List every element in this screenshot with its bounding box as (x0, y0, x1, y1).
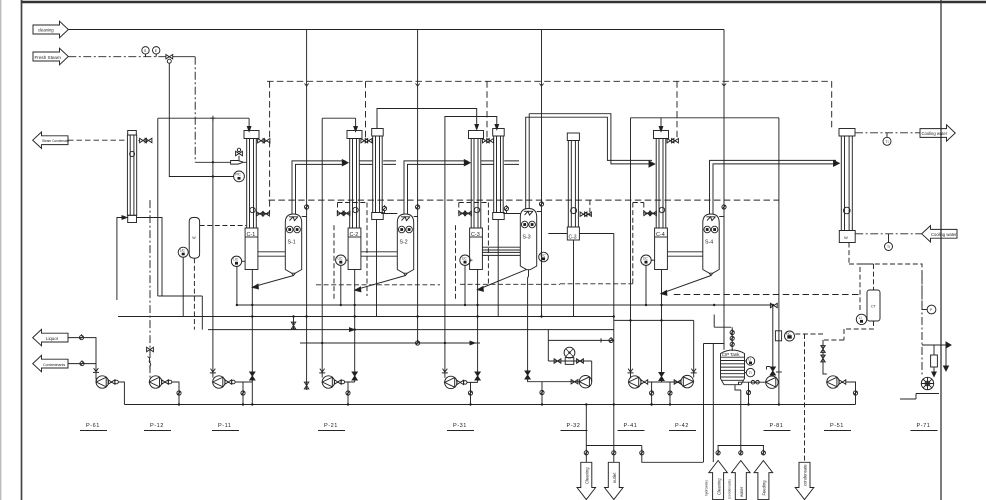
wire: vapor pipe S-2 to C-3 (404, 160, 470, 214)
pump P-51 (827, 376, 839, 388)
valve on contaminants line (80, 360, 84, 366)
svg-text:Feeding: Feeding (762, 480, 767, 496)
instrument PIC below C-1 steam inlet (234, 171, 245, 182)
wire: P-42 suction riser (693, 320, 695, 377)
arrowhead into C-2 drain (350, 328, 355, 332)
wire: chain-dash suction of P-12 (149, 200, 151, 377)
valve on P-31 discharge (457, 380, 467, 384)
wire: duct C-3 to S-3 (two bands) (482, 247, 520, 255)
preheater column E-2 (372, 129, 384, 220)
column CT (867, 290, 880, 321)
flag: Contaminants outlet arrow (left) (33, 355, 68, 371)
wire: vapor pipe C-2 to E-2 stub (360, 161, 373, 165)
flag: Cooling water outlet arrow (right) (920, 125, 955, 141)
wire: C-4 drain drop x=661.5 (661, 270, 663, 383)
svg-text:cleaning: cleaning (38, 28, 54, 33)
svg-text:W: W (192, 236, 196, 240)
frame outer edge shading (0, 0, 2, 500)
valve on P-32 suction (571, 380, 578, 384)
wire: steam condensate dashed line to E-1 (68, 139, 127, 141)
wire: dashed enclosure effect 2 (316, 203, 440, 301)
svg-text:Cooling water: Cooling water (931, 232, 957, 237)
wire: drop to C-4 cap x=661 (660, 118, 662, 129)
svg-text:P-32: P-32 (567, 423, 581, 429)
valve pair right of C-4 top (667, 139, 678, 143)
check valve above P-42 (691, 369, 697, 373)
column C-1 (244, 131, 259, 270)
svg-text:P-12: P-12 (150, 423, 164, 429)
wire: E-3 drain (497, 220, 499, 317)
svg-text:LIC: LIC (233, 258, 239, 262)
flag: Cleaning down arrow (577, 462, 596, 499)
wire: cleaning drop to CIP tank x=724 (723, 30, 725, 350)
pump P-31 (445, 376, 457, 388)
svg-text:S-4: S-4 (705, 240, 713, 246)
wire: header D left drop to P-41 (630, 118, 632, 378)
instrument PI on fresh steam (142, 47, 149, 57)
pump P-11 (213, 376, 225, 388)
wire: header A right drop to C-1 cap (248, 118, 250, 129)
wire: P-31 suction (444, 343, 446, 378)
instrument TI on cooling water in (885, 234, 893, 251)
flag: outlet down arrow (605, 462, 624, 499)
wire: header A left drop (157, 118, 159, 296)
wire: vapor pipe S-4 to condenser (710, 160, 840, 214)
arrowheads on P-71 branch (932, 342, 951, 377)
wire: transfer feed line y=343 (300, 342, 480, 344)
wire: vapor pipe C-3 to E-3 stub (481, 161, 493, 165)
valve on P-51 suction lower (821, 355, 825, 362)
pump P-12 (149, 376, 161, 388)
wire: dashed enclosure at P-51 (795, 334, 823, 462)
instrument LIC of C-4 (641, 255, 655, 305)
flag: Fresh Steam inlet arrow (33, 48, 68, 65)
flag: cleaning inlet arrow (33, 21, 68, 38)
wire: S-1 drain diagonal (253, 276, 294, 287)
svg-text:Cooling water: Cooling water (922, 131, 948, 136)
wire: dashed drop to C-2 x=365.5 (365, 81, 367, 140)
wire: secondary transfer line y=329.2 (208, 329, 614, 331)
flag: Feeding up arrow (754, 446, 773, 500)
wire: P-71 bottom piping (900, 394, 939, 400)
wire: E-1 bottom inlet with arrow (117, 218, 123, 301)
wire: E-2 drain (376, 220, 378, 317)
vent valve at E-2 bottom (381, 205, 397, 213)
arrowhead into E-3 cap (495, 125, 499, 130)
svg-text:Steam Condensate: Steam Condensate (42, 139, 70, 143)
column C-3 (469, 131, 484, 270)
wire: dashed W drain (193, 258, 195, 329)
valve pair right of C-1 top (258, 139, 270, 143)
wire: dashed drop to condenser x=831.7 (831, 81, 833, 127)
wire: recirculation header A y=118.2 (158, 117, 249, 119)
svg-text:P-51: P-51 (830, 423, 844, 429)
svg-text:Liquor: Liquor (46, 336, 59, 341)
wire: dashed enclosure effect 3 (456, 203, 561, 301)
label P-61 (80, 423, 107, 431)
svg-text:Fresh Steam: Fresh Steam (35, 55, 61, 60)
valve on liquor line (79, 334, 83, 340)
svg-text:C-1: C-1 (247, 232, 256, 238)
wire: E-4 outlet to outlet header (548, 233, 614, 235)
wire: vapor pipe S-1 to C-2 (292, 160, 348, 214)
wire: P-81 riser (767, 305, 773, 376)
svg-text:P-11: P-11 (218, 423, 231, 429)
wire: contaminants outlet line (68, 363, 96, 365)
svg-text:CT: CT (871, 305, 877, 309)
svg-text:P-81: P-81 (770, 423, 784, 429)
wire: long dashed CIP return manifold y=200.1 (269, 199, 779, 201)
instrument LI of CT (856, 314, 866, 324)
wire: dashed W to C-1 (200, 225, 247, 227)
pump P-41 (629, 376, 641, 388)
vent valve at E-3 bottom (503, 205, 520, 213)
valve on outlet arrow drop (612, 449, 616, 455)
junction dots on liquor main (236, 304, 774, 344)
valve on P-51 suction upper (821, 346, 825, 353)
valve on P-21 discharge (334, 380, 344, 384)
svg-text:TI: TI (886, 140, 889, 144)
svg-text:C-2: C-2 (350, 232, 359, 238)
wire: feed corner to CIP area (704, 344, 725, 463)
wire: liquor outlet line (68, 338, 96, 364)
wire: liquor transfer right segment y=320.4 (614, 319, 694, 321)
wire: Fresh Steam chain-dashed line (68, 56, 166, 58)
wire: recirculation header D y=117.8 (631, 117, 779, 119)
label P-81 (764, 423, 791, 431)
flag: Liquor outlet arrow (left) (33, 329, 68, 345)
steam nozzle arrow into C-1 (231, 148, 247, 164)
dark valve on P-32 suction (525, 371, 530, 379)
svg-text:Cleaning: Cleaning (585, 467, 590, 484)
flag: Steam Condensate outlet arrow (left) (33, 132, 70, 148)
valves on CIP feed stack (730, 329, 734, 346)
instrument TI on fresh steam (153, 47, 160, 57)
wire: header B right drop to C-2 cap (355, 118, 357, 129)
pump P-32 (579, 376, 591, 388)
frame left border line (21, 0, 23, 500)
check valve above P-61 (93, 368, 99, 372)
control valve station of P-32 (554, 358, 583, 365)
wire: cleaning drop x=541.5 (541, 30, 543, 318)
spray valve into S-1 dome (302, 204, 309, 217)
wire: duct C-4 to S-4 (667, 252, 702, 256)
junction cross on header A (210, 116, 215, 121)
valve on P-61 discharge (108, 380, 118, 384)
svg-text:Cleaning: Cleaning (716, 478, 721, 495)
wire: dashed drop to C-3 x=487 (486, 81, 488, 140)
wire: bottom collection bus y=404.5 (124, 404, 855, 406)
instrument LIC of C-2 (336, 255, 349, 305)
valve pair between C-2 and E-2 (361, 139, 372, 143)
valve on jog drop (640, 449, 644, 455)
wire: chain-dash cooling water inlet to condenser (855, 233, 922, 235)
wire: vapor pipe E-3 to S-3 stub (504, 161, 519, 165)
wire: fresh steam to riser (173, 56, 196, 58)
preheater column E-1 (left) (127, 131, 136, 223)
svg-text:LIC: LIC (541, 253, 547, 257)
separator S-3 (520, 209, 536, 270)
svg-text:TI: TI (887, 245, 890, 249)
wire: liquor collect line y=305 (237, 304, 772, 306)
valve at end of cleaning drop x=306.6 (304, 382, 308, 389)
wire: dashed drop to C-4 x=677 (676, 81, 678, 140)
wire: cleaning main header (68, 29, 724, 31)
valve on P-11 discharge (225, 380, 235, 384)
svg-text:outlet: outlet (612, 472, 617, 483)
label P-41 (618, 423, 645, 431)
svg-text:LIC: LIC (180, 249, 186, 253)
svg-text:Contaminants: Contaminants (43, 363, 65, 367)
svg-text:hydroxide): hydroxide) (705, 480, 709, 496)
valve on P-12 discharge (162, 380, 172, 384)
instrument LIC of W (178, 247, 188, 316)
svg-text:condensate: condensate (803, 464, 808, 486)
svg-text:LI: LI (859, 316, 862, 320)
valve pair at C-3 dome level (left) (459, 203, 489, 216)
svg-text:P-41: P-41 (624, 423, 638, 429)
instrument LIC of C-1 (231, 256, 245, 305)
svg-text:P-71: P-71 (917, 423, 931, 429)
label P-71 (911, 423, 938, 431)
valve on fresh steam line (166, 55, 173, 64)
svg-text:P-61: P-61 (86, 423, 100, 429)
valve on CIP bus drop (746, 389, 750, 395)
valve on P-42 discharge (674, 380, 681, 384)
label P-12 (144, 423, 171, 431)
CIP tank (721, 350, 745, 385)
arrowhead into C-3 cap (475, 125, 479, 130)
valve pair at C-1 dome level (256, 212, 269, 216)
label P-21 (318, 423, 345, 431)
wire: P-41/P-42 discharge header (648, 381, 681, 383)
flag: Cleaning up arrow (705, 446, 728, 500)
inline device on x=778.5 line (775, 331, 782, 372)
valve (dark) on drain x=661.5 (659, 373, 664, 381)
wire: effect-3 line B from P-31 riser to E-3 cap (445, 117, 497, 344)
wire: E-4 drain down (573, 240, 575, 317)
preheater column E-3 (493, 129, 505, 220)
frame top border line (22, 1, 986, 3)
wire: line into C-1 steam nozzle (195, 161, 230, 163)
instrument LI of CIP tank (745, 357, 755, 365)
label P-42 (669, 423, 696, 431)
flag: condensate down arrow (795, 462, 814, 499)
wire: CIP outlet to P-81 (739, 382, 766, 385)
spray valve into S-4 dome (719, 204, 726, 217)
valve on drop x=670 (668, 390, 672, 396)
wire: P-61 discharge to bus (118, 382, 124, 405)
column C-2 (347, 131, 362, 270)
check valve above P-11 (210, 369, 216, 373)
svg-text:(condensate): (condensate) (728, 479, 732, 499)
valve on S-1 drain branch (293, 317, 295, 330)
wire: P-12 discharge to bus (172, 382, 179, 405)
valve on y=340.4 line (609, 337, 613, 343)
pump P-71 (liquid ring) (921, 377, 933, 389)
wire: C-2 drain drop x=354.7 (354, 270, 356, 383)
valve on P-11 bus drop (241, 390, 245, 396)
svg-text:C-4: C-4 (656, 232, 665, 238)
wire: chain-dash drop to P-71 (921, 272, 923, 377)
svg-text:C-3: C-3 (569, 235, 577, 241)
valve on drop x=651.6 (650, 390, 654, 396)
separator S-2 (397, 214, 413, 276)
valve (dark) on drain x=354.7 (352, 372, 357, 380)
wire: CT bottom to P-51 area (823, 321, 874, 340)
separator S-1 (285, 214, 301, 276)
condenser column (839, 129, 855, 243)
wire: chain-dash riser x=195.2 down to C-1 inlet level (194, 57, 196, 163)
wire: drop to P-61 (95, 364, 97, 382)
flag: water up arrow (728, 446, 751, 500)
wire: outlet arrow stem (613, 446, 615, 463)
wire: CIP bus drop (748, 382, 750, 404)
wire: P-32 riser to control valve (548, 329, 591, 382)
svg-text:water: water (739, 486, 744, 497)
wire: effect-3 line A from E-2 top to C-3 cap (377, 109, 477, 129)
wire: P-32 suction line (528, 376, 580, 382)
svg-text:LIC: LIC (462, 257, 468, 261)
flash vessel W (189, 217, 199, 258)
valve on Feeding up arrow (761, 449, 765, 455)
svg-text:LIC: LIC (338, 257, 344, 261)
wire: C-3 drain drop x=477.6 (477, 270, 479, 383)
wire: cleaning drain line y=445.5 left group (586, 405, 703, 463)
svg-text:LIC: LIC (643, 257, 649, 261)
junction ticks on CIP header (305, 84, 727, 87)
wire: E-1 bottom outlet (137, 218, 162, 297)
valve pair at C-2 dome level (left) (337, 203, 367, 216)
wire: P-51 discharge to bus (846, 382, 856, 405)
pump P-42 (mirrored) (681, 375, 693, 387)
spray valve into S-2 dome (414, 204, 420, 217)
wire: recirculation header B y=118.2 (322, 117, 355, 119)
pump P-61 (96, 376, 108, 388)
column C-4 (654, 131, 669, 270)
svg-text:W: W (844, 235, 848, 240)
svg-text:P-31: P-31 (453, 423, 467, 429)
wire: S-4 drain diagonal (662, 276, 711, 294)
valve pair right of E-4 (580, 212, 591, 216)
instrument bubble right of inline device (785, 331, 795, 341)
valve on P-21 bus drop (346, 390, 350, 396)
wire: up-arrow header y=445.5 (718, 445, 765, 447)
separator S-4 (703, 214, 719, 276)
wire: line y=340.4 to outlet drop (548, 339, 614, 341)
svg-text:S-3: S-3 (523, 235, 531, 241)
wire: duct C-2 to S-2 (361, 252, 397, 256)
svg-text:LI: LI (748, 357, 751, 361)
instrument TI on cooling water out (883, 133, 891, 146)
valve at end of cleaning drop x=417.6 (416, 340, 420, 346)
svg-text:P-21: P-21 (324, 423, 338, 429)
wire: header B left drop to P-21 (321, 118, 323, 377)
check valve above P-31 (442, 369, 448, 373)
valve on P-41 discharge (641, 380, 648, 384)
wire: vapor pipe S-3 over to C-4 (526, 114, 655, 209)
inline device on P-71 branch (931, 355, 938, 367)
label P-11 (212, 423, 239, 431)
instrument FIC above control valve (564, 347, 575, 358)
valve on P-31 bus drop (468, 390, 472, 396)
check valve above P-41 (628, 369, 634, 373)
valve on P-12 bus drop (177, 390, 181, 396)
valve on P-32 bus drop (540, 389, 544, 395)
svg-text:C-3: C-3 (471, 232, 480, 238)
wire: dashed collect line right y=295.8 (674, 294, 860, 296)
wire: P-11 discharge to riser and bus drop (235, 382, 252, 405)
wire: bus drops from discharge header (652, 382, 670, 405)
label P-31 (447, 423, 474, 431)
valve on P-51 drop (853, 390, 857, 396)
wire: cleaning drop x=306.6 (306, 30, 308, 391)
junction dots at steam crossings (212, 161, 214, 178)
dark valve on P-81 riser (770, 367, 775, 375)
instrument TI of CIP tank (745, 368, 755, 376)
check valve above P-21 (319, 369, 325, 373)
instrument PI of P-71 (922, 305, 936, 314)
spray valve into S-3 dome (537, 201, 544, 212)
svg-text:S-1: S-1 (288, 240, 296, 246)
wire: S-2 drain diagonal (355, 276, 405, 290)
wire: P-32 bus drop (541, 382, 543, 405)
svg-text:FIC: FIC (786, 332, 792, 336)
trap on P-12 suction (148, 357, 151, 369)
svg-text:P-42: P-42 (675, 423, 689, 429)
wire: P-31 discharge to riser and bus drop (467, 382, 478, 404)
wire: dashed enclosure around CT (860, 264, 922, 310)
arrowhead into C-1 cap (247, 127, 251, 132)
wire: vapor pipe E-2 to S-2 stub (383, 161, 396, 165)
valve (dark) on drain x=477.6 (475, 372, 480, 380)
wire: header D right drop long x=778.5 (778, 118, 780, 405)
valve (dark) on drain x=252.3 (250, 372, 255, 380)
junction dots on bottom bus (178, 403, 780, 405)
wire: outlet drop x=613.8 (613, 234, 615, 446)
arrowhead into C-4 cap (659, 127, 663, 132)
label P-51 (824, 423, 851, 431)
label P-32 (561, 423, 588, 431)
valve pair right of E-1 top (139, 138, 152, 142)
instrument LIC right of S-3 (539, 252, 549, 262)
wire: dashed drop to S-1 x=269.6 (269, 81, 271, 214)
wire: S-3 drain diagonal (478, 270, 526, 290)
arrowhead into C-2 cap (354, 127, 358, 132)
wire: fresh steam solid drop x=169.3 (169, 63, 233, 177)
wire: duct C-1 to S-1 (258, 252, 285, 256)
wire: chain riser right of E-4 (589, 200, 591, 212)
wire: liquor transfer main y=316.5 (118, 316, 614, 318)
svg-text:S-2: S-2 (400, 240, 408, 246)
pump P-21 (322, 376, 334, 388)
wire: cleaning drop x=417.6 (417, 30, 419, 344)
wire: CIP dashed supply header y=81.3 (267, 80, 832, 82)
wire: dashed enclosure effect 4 (560, 203, 633, 284)
wire: chain-dash condenser top to cooling water out (855, 132, 920, 134)
valve on P-51 discharge (839, 380, 846, 384)
valve pair at C-4 dome level (left) (633, 203, 657, 216)
wire: P-51 suction with valves (823, 340, 827, 374)
frame right border line (940, 0, 942, 500)
flag: Cooling water inlet arrow (pointing left) (922, 226, 958, 242)
valve pair between C-3 and E-3 (482, 139, 493, 143)
svg-text:PIC: PIC (235, 173, 241, 177)
wire: line from E-1 outlet to transfer (162, 296, 202, 330)
wire: P-21 discharge to riser and bus drop (345, 382, 355, 405)
wire: CIP down feed to up-arrows (735, 385, 741, 446)
valve on water up arrow (739, 449, 743, 455)
